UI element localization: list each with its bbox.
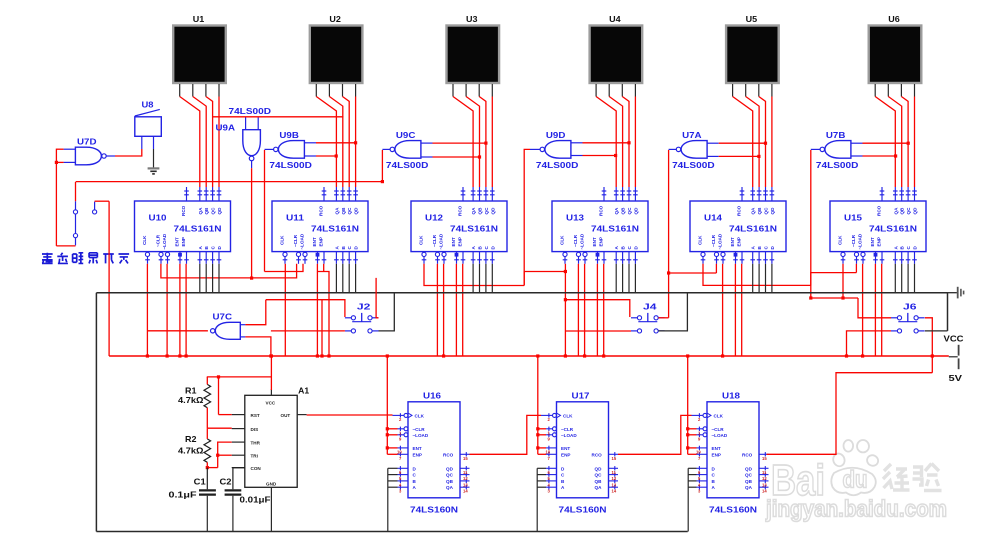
- svg-text:ENT: ENT: [312, 237, 317, 246]
- switch J2: [345, 302, 379, 334]
- svg-text:ENP: ENP: [712, 452, 721, 457]
- svg-text:13: 13: [612, 482, 617, 487]
- svg-text:CON: CON: [251, 466, 262, 471]
- svg-text:ENT: ENT: [561, 446, 570, 451]
- wire stage2 load line: [265, 264, 304, 272]
- svg-text:QA: QA: [334, 207, 339, 215]
- svg-text:QA: QA: [595, 485, 603, 490]
- U17 control rail: [536, 354, 546, 454]
- svg-text:U7C: U7C: [213, 311, 233, 321]
- svg-text:U9B: U9B: [279, 130, 299, 140]
- svg-text:ENT: ENT: [413, 446, 422, 451]
- svg-text:jingyan.baidu.com: jingyan.baidu.com: [765, 496, 947, 522]
- wire stage5 clock link: [669, 264, 857, 286]
- svg-text:ENT: ENT: [712, 446, 721, 451]
- svg-text:0.1μF: 0.1μF: [169, 489, 197, 499]
- svg-text:J6: J6: [903, 302, 917, 312]
- svg-text:ENT: ENT: [175, 237, 180, 246]
- svg-text:14: 14: [762, 489, 767, 494]
- svg-text:10: 10: [546, 449, 551, 454]
- svg-text:~LOAD: ~LOAD: [162, 233, 167, 249]
- capacitor C1: [169, 468, 216, 532]
- svg-text:QD: QD: [745, 466, 753, 471]
- svg-text:U9A: U9A: [216, 123, 236, 133]
- svg-text:ENP: ENP: [877, 237, 882, 246]
- svg-text:74LS00D: 74LS00D: [672, 160, 715, 170]
- svg-text:QD: QD: [354, 207, 359, 215]
- svg-text:QB: QB: [757, 207, 762, 215]
- svg-text:RCO: RCO: [599, 205, 604, 216]
- wire stage2 ent link: [317, 272, 330, 358]
- svg-text:QA: QA: [198, 207, 203, 215]
- svg-text:RCO: RCO: [319, 205, 324, 216]
- svg-text:QD: QD: [595, 466, 603, 471]
- svg-text:15: 15: [612, 456, 617, 461]
- svg-text:GND: GND: [266, 482, 277, 487]
- svg-text:QA: QA: [893, 207, 898, 215]
- svg-text:QC: QC: [764, 207, 769, 215]
- svg-text:QA: QA: [471, 207, 476, 215]
- capacitor C2: [220, 468, 271, 532]
- counter U13 74LS161N body: [552, 201, 648, 252]
- svg-text:QB: QB: [595, 479, 603, 484]
- U9A output wire: [250, 161, 253, 280]
- J2 black riser: [379, 293, 395, 331]
- svg-text:QC: QC: [446, 473, 454, 478]
- svg-text:~LOAD: ~LOAD: [413, 433, 429, 438]
- svg-text:C1: C1: [194, 476, 206, 486]
- svg-text:74LS161N: 74LS161N: [311, 224, 359, 234]
- svg-text:QB: QB: [341, 207, 346, 215]
- svg-text:U7A: U7A: [682, 130, 702, 140]
- seven-segment display U4: [590, 14, 643, 83]
- counter U12 bottom pins: [422, 252, 495, 264]
- svg-text:11: 11: [762, 470, 767, 475]
- svg-text:U5: U5: [746, 14, 758, 24]
- svg-text:U7B: U7B: [826, 130, 846, 140]
- svg-text:CLK: CLK: [560, 235, 565, 245]
- svg-text:ENT: ENT: [592, 237, 597, 246]
- svg-text:QD: QD: [770, 207, 775, 215]
- svg-text:CLK: CLK: [698, 235, 703, 245]
- U7C input wires: [240, 300, 272, 358]
- svg-text:74LS160N: 74LS160N: [410, 505, 458, 515]
- svg-text:ENP: ENP: [737, 237, 742, 246]
- svg-text:12: 12: [463, 476, 468, 481]
- watermark Baidu jingyan logo: [765, 440, 947, 522]
- chime switch label 整点报时开关: [42, 253, 129, 264]
- svg-text:ENP: ENP: [458, 237, 463, 246]
- svg-text:U13: U13: [566, 213, 584, 223]
- wire stage1 reset line: [161, 264, 297, 278]
- svg-text:74LS160N: 74LS160N: [559, 505, 607, 515]
- svg-text:12: 12: [612, 476, 617, 481]
- svg-text:74LS161N: 74LS161N: [450, 224, 498, 234]
- svg-text:QD: QD: [490, 207, 495, 215]
- nand gate U9B: [269, 130, 312, 170]
- svg-text:~CLR: ~CLR: [561, 427, 574, 432]
- svg-text:74LS161N: 74LS161N: [869, 224, 917, 234]
- VCC feed to A1 and R1: [207, 354, 273, 414]
- counter U16 pin stubs: [393, 413, 470, 494]
- counter U14 bottom pins: [701, 252, 775, 264]
- svg-text:~CLR: ~CLR: [573, 234, 578, 247]
- timer A1 LM555 body: [245, 386, 310, 488]
- svg-text:QC: QC: [484, 207, 489, 215]
- svg-text:~CLR: ~CLR: [851, 234, 856, 247]
- U7B input wires: [851, 142, 910, 158]
- svg-text:QC: QC: [211, 207, 216, 215]
- U9B output wire: [265, 149, 274, 271]
- U7B output wire: [809, 149, 820, 299]
- svg-text:QD: QD: [446, 466, 454, 471]
- svg-text:~CLR: ~CLR: [432, 234, 437, 247]
- counter U13 top pins QA-QD and RCO: [602, 187, 638, 201]
- counter U18 pin stubs: [692, 413, 769, 494]
- U9B input wires: [304, 141, 357, 157]
- svg-text:QC: QC: [745, 473, 753, 478]
- svg-text:11: 11: [463, 470, 468, 475]
- svg-text:J2: J2: [357, 302, 371, 312]
- svg-text:~CLR: ~CLR: [711, 234, 716, 247]
- svg-text:DIS: DIS: [251, 427, 259, 432]
- svg-text:ENP: ENP: [561, 452, 570, 457]
- svg-text:QB: QB: [446, 479, 454, 484]
- svg-text:~CLR: ~CLR: [156, 234, 161, 247]
- svg-text:CLK: CLK: [280, 235, 285, 245]
- svg-text:RCO: RCO: [737, 205, 742, 216]
- svg-text:74LS161N: 74LS161N: [174, 224, 222, 234]
- svg-text:OUT: OUT: [281, 413, 291, 418]
- svg-text:VCC: VCC: [266, 401, 276, 406]
- switch J6: [891, 302, 925, 334]
- svg-text:U8: U8: [142, 100, 154, 110]
- svg-text:~LOAD: ~LOAD: [580, 233, 585, 249]
- power bus wire VCC: [109, 355, 949, 357]
- svg-text:du: du: [843, 467, 868, 494]
- counter U13 bottom pins: [563, 252, 638, 264]
- svg-text:74LS00D: 74LS00D: [536, 160, 579, 170]
- ground frame wire: [96, 293, 947, 532]
- counter U15 top pins QA-QD and RCO: [880, 187, 917, 201]
- svg-text:QC: QC: [906, 207, 911, 215]
- svg-text:5V: 5V: [949, 373, 963, 383]
- svg-text:QC: QC: [347, 207, 352, 215]
- counter U11 top pins QA-QD and RCO: [322, 187, 358, 201]
- J6 black link to frame: [925, 330, 948, 332]
- svg-text:14: 14: [463, 489, 468, 494]
- svg-text:U2: U2: [329, 14, 341, 24]
- svg-text:13: 13: [762, 482, 767, 487]
- U9D input wires: [571, 141, 631, 157]
- svg-text:U7D: U7D: [77, 137, 97, 147]
- svg-text:U9C: U9C: [396, 130, 416, 140]
- buzzer U8: [135, 100, 162, 150]
- U18 RCO loop to J6: [767, 373, 933, 455]
- resistor R2: [178, 434, 211, 462]
- U7D output wire to buzzer U8: [106, 149, 142, 156]
- svg-text:C2: C2: [220, 476, 232, 486]
- svg-text:A1: A1: [298, 386, 309, 396]
- nand gate U9D: [536, 130, 579, 170]
- svg-text:~LOAD: ~LOAD: [712, 433, 728, 438]
- display U4 pins: [596, 84, 635, 97]
- display U3 pins: [453, 84, 492, 97]
- U9D output wire: [524, 149, 540, 285]
- svg-text:~LOAD: ~LOAD: [858, 233, 863, 249]
- svg-text:74LS160N: 74LS160N: [709, 505, 757, 515]
- counter U18 74LS160N body: [707, 391, 759, 515]
- U17 RCO to U18 CLK: [618, 415, 692, 454]
- U7A input wires: [707, 142, 767, 158]
- svg-text:U11: U11: [286, 213, 304, 223]
- svg-text:QB: QB: [900, 207, 905, 215]
- svg-text:~LOAD: ~LOAD: [439, 233, 444, 249]
- nand gate U7B: [816, 130, 859, 170]
- svg-text:QB: QB: [478, 207, 483, 215]
- svg-text:QA: QA: [751, 207, 756, 215]
- counter U14 top pins QA-QD and RCO: [740, 187, 775, 201]
- wire stage3 clock link: [424, 264, 567, 286]
- U9C input wires: [421, 142, 488, 159]
- seven-segment display U6: [869, 14, 922, 83]
- svg-text:4.7kΩ: 4.7kΩ: [178, 395, 204, 405]
- J6 wiring: [811, 298, 934, 373]
- battery VCC 5V: [944, 334, 964, 383]
- A1 pin stubs: [232, 389, 307, 532]
- svg-text:QA: QA: [745, 485, 753, 490]
- svg-text:U12: U12: [425, 213, 443, 223]
- U7D input wires: [55, 149, 76, 246]
- svg-text:0.01μF: 0.01μF: [240, 495, 271, 505]
- chime switch wiring: [56, 182, 109, 356]
- svg-text:QB: QB: [204, 207, 209, 215]
- svg-text:QA: QA: [446, 485, 454, 490]
- counter U12 top pins QA-QD and RCO: [461, 187, 495, 201]
- svg-text:R1: R1: [185, 386, 197, 396]
- seven-segment display U5: [726, 14, 779, 83]
- svg-text:RCO: RCO: [443, 452, 454, 457]
- svg-text:74LS161N: 74LS161N: [729, 224, 777, 234]
- svg-text:ENT: ENT: [870, 237, 875, 246]
- svg-text:U18: U18: [722, 391, 740, 401]
- svg-text:~CLR: ~CLR: [413, 427, 426, 432]
- counter U11 74LS161N body: [272, 201, 368, 252]
- ground below U8: [148, 149, 160, 174]
- switch J4: [631, 302, 665, 334]
- svg-text:~LOAD: ~LOAD: [561, 433, 577, 438]
- counter U17 pin stubs: [541, 413, 618, 494]
- svg-text:74LS00D: 74LS00D: [386, 160, 429, 170]
- svg-text:U15: U15: [844, 213, 862, 223]
- svg-text:~LOAD: ~LOAD: [718, 233, 723, 249]
- nand gate U9A: [216, 106, 272, 161]
- display U6 pins: [875, 84, 914, 97]
- svg-text:74LS00D: 74LS00D: [229, 106, 272, 116]
- R2 wires: [206, 428, 232, 469]
- svg-text:ENP: ENP: [181, 237, 186, 246]
- counter U10 74LS161N body: [135, 201, 231, 252]
- svg-text:15: 15: [762, 456, 767, 461]
- svg-text:U10: U10: [149, 213, 167, 223]
- counter data pins tied to frame: [200, 264, 915, 293]
- svg-text:U16: U16: [423, 391, 441, 401]
- svg-text:ENP: ENP: [319, 237, 324, 246]
- svg-text:10: 10: [397, 449, 402, 454]
- U9C output wire to chime line: [381, 149, 390, 183]
- svg-text:ENT: ENT: [451, 237, 456, 246]
- svg-text:ENT: ENT: [730, 237, 735, 246]
- wire H2 chime line: [76, 181, 383, 183]
- display U2 pins: [316, 84, 355, 97]
- display U1 pins: [180, 84, 219, 97]
- U7A output wire down to J4: [667, 149, 676, 317]
- U18 control rail: [686, 354, 696, 454]
- U16 data rail black: [388, 468, 398, 531]
- svg-text:QA: QA: [614, 207, 619, 215]
- svg-text:QC: QC: [627, 207, 632, 215]
- svg-text:~CLR: ~CLR: [293, 234, 298, 247]
- U16 control rail: [386, 354, 398, 454]
- svg-text:QD: QD: [217, 207, 222, 215]
- counter U15 74LS161N body: [830, 201, 926, 252]
- svg-text:TRI: TRI: [251, 454, 258, 459]
- svg-text:RCO: RCO: [592, 452, 603, 457]
- svg-text:RCO: RCO: [458, 205, 463, 216]
- svg-text:QD: QD: [633, 207, 638, 215]
- svg-text:CLK: CLK: [142, 235, 147, 245]
- nand gate U7D: [75, 137, 106, 165]
- svg-text:QB: QB: [621, 207, 626, 215]
- svg-text:74LS00D: 74LS00D: [816, 160, 859, 170]
- svg-text:14: 14: [612, 489, 617, 494]
- svg-text:J4: J4: [643, 302, 657, 312]
- resistor R1: [178, 384, 211, 407]
- counter control pin wires to bus: [146, 264, 882, 358]
- svg-text:QB: QB: [745, 479, 753, 484]
- nand gate U7C: [211, 311, 241, 339]
- counter U10 top pins QA-QD and RCO: [184, 187, 221, 201]
- svg-text:ENP: ENP: [599, 237, 604, 246]
- svg-text:13: 13: [463, 482, 468, 487]
- svg-text:VCC: VCC: [944, 334, 964, 344]
- U18 data rail black: [688, 468, 696, 531]
- seven-segment display U1: [173, 14, 226, 83]
- U9A input wires: [246, 117, 259, 130]
- svg-text:ENP: ENP: [413, 452, 422, 457]
- svg-text:RST: RST: [251, 413, 260, 418]
- A1 output to U16 clock: [307, 414, 393, 416]
- svg-text:74LS00D: 74LS00D: [269, 160, 312, 170]
- svg-text:~CLR: ~CLR: [712, 427, 725, 432]
- svg-text:THR: THR: [251, 440, 261, 445]
- svg-text:~LOAD: ~LOAD: [300, 233, 305, 249]
- svg-text:RCO: RCO: [742, 452, 753, 457]
- J2 wiring: [266, 278, 379, 358]
- seven-segment display U3: [447, 14, 500, 83]
- J4 black riser: [658, 293, 687, 331]
- svg-text:12: 12: [762, 476, 767, 481]
- svg-text:U9D: U9D: [546, 130, 566, 140]
- counter U11 bottom pins: [283, 252, 358, 264]
- U16 RCO to U17 CLK: [470, 415, 542, 454]
- svg-text:4.7kΩ: 4.7kΩ: [178, 446, 204, 456]
- counter U17 74LS160N body: [557, 391, 609, 515]
- svg-text:U1: U1: [193, 14, 205, 24]
- svg-text:11: 11: [612, 470, 617, 475]
- svg-text:U17: U17: [572, 391, 590, 401]
- J4 wiring: [565, 300, 668, 331]
- svg-text:U4: U4: [609, 14, 621, 24]
- svg-text:15: 15: [463, 456, 468, 461]
- svg-text:CLK: CLK: [415, 413, 425, 418]
- svg-text:RCO: RCO: [877, 205, 882, 216]
- svg-text:74LS161N: 74LS161N: [591, 224, 639, 234]
- svg-text:CLK: CLK: [419, 235, 424, 245]
- svg-text:R2: R2: [185, 434, 197, 444]
- svg-text:U3: U3: [466, 14, 478, 24]
- svg-text:QD: QD: [913, 207, 918, 215]
- frame ground symbol top right: [948, 287, 964, 299]
- counter U15 bottom pins: [841, 252, 917, 264]
- counter U14 74LS161N body: [690, 201, 786, 252]
- svg-text:10: 10: [696, 449, 701, 454]
- U17 data rail black: [537, 468, 546, 531]
- wire H1 tap line stage1: [212, 116, 343, 118]
- svg-text:RCO: RCO: [181, 205, 186, 216]
- U7C output wire to U10 CLK: [147, 330, 208, 332]
- svg-text:QC: QC: [595, 473, 603, 478]
- svg-text:CLK: CLK: [714, 413, 724, 418]
- nand gate U7A: [672, 130, 715, 170]
- svg-text:U6: U6: [888, 14, 900, 24]
- counter U16 74LS160N body: [408, 391, 460, 515]
- R1 wires: [207, 377, 231, 428]
- counter U10 bottom pins: [145, 252, 221, 264]
- seven-segment display U2: [310, 14, 363, 83]
- nand gate U9C: [386, 130, 429, 170]
- svg-text:CLK: CLK: [838, 235, 843, 245]
- svg-text:CLK: CLK: [563, 413, 573, 418]
- svg-text:U14: U14: [704, 213, 722, 223]
- counter U12 74LS161N body: [411, 201, 507, 252]
- wire bundles from displays to counter outputs: [180, 97, 219, 188]
- display U5 pins: [733, 84, 772, 97]
- chime switch contacts: [73, 201, 96, 245]
